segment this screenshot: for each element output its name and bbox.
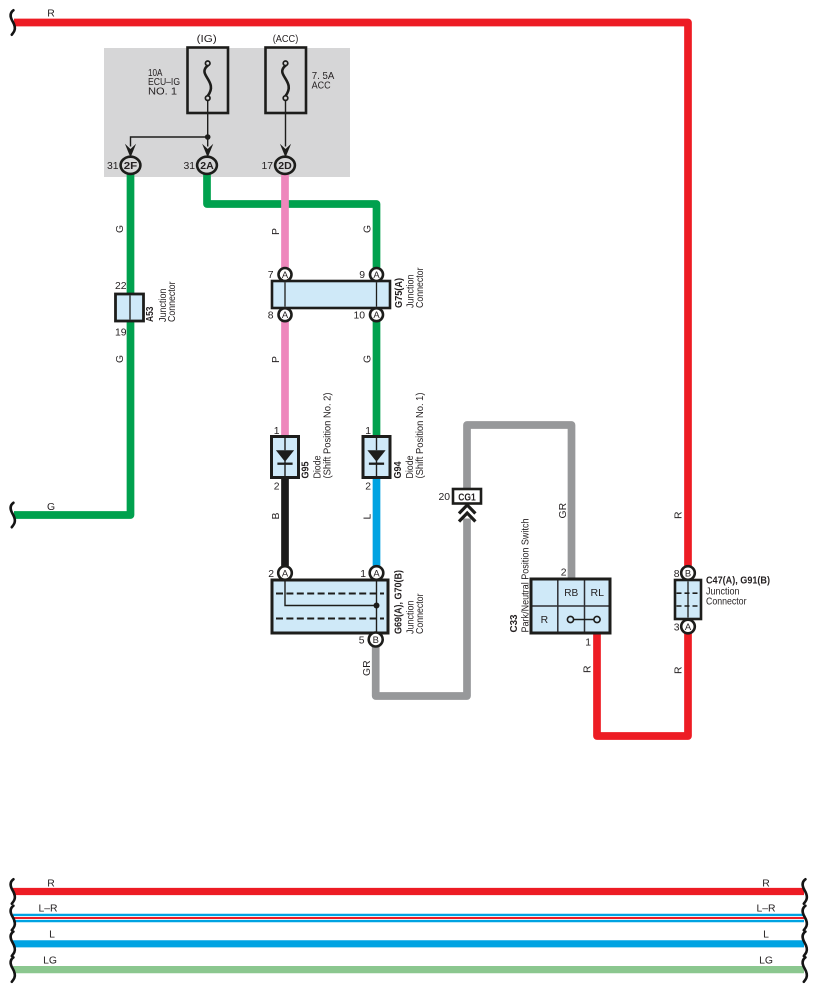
svg-text:31: 31	[107, 161, 119, 172]
svg-text:G95: G95	[301, 461, 312, 478]
svg-text:19: 19	[115, 328, 127, 339]
svg-text:1: 1	[585, 638, 591, 649]
svg-text:Connector: Connector	[706, 597, 747, 608]
svg-text:(ACC): (ACC)	[273, 34, 299, 45]
arrow into 2D	[280, 144, 291, 158]
break symbol left end of wire R	[11, 10, 15, 34]
svg-text:B: B	[373, 634, 379, 645]
bottom bus wire R	[13, 888, 804, 895]
svg-text:2: 2	[561, 568, 567, 579]
svg-text:L: L	[363, 514, 374, 520]
svg-text:R: R	[674, 666, 685, 674]
svg-text:2A: 2A	[200, 161, 214, 172]
diode G94	[363, 437, 390, 478]
svg-text:C47(A), G91(B): C47(A), G91(B)	[706, 576, 770, 587]
wire P (G75 pin 8 to diode G95)	[281, 321, 289, 437]
svg-text:7: 7	[268, 270, 274, 281]
junction connector C47(A), G91(B)	[675, 580, 701, 619]
svg-text:A53: A53	[145, 306, 156, 322]
svg-text:P: P	[271, 356, 282, 363]
svg-text:Connector: Connector	[167, 281, 178, 322]
switch contact	[574, 619, 594, 621]
svg-text:(Shift Position No. 2): (Shift Position No. 2)	[323, 393, 334, 479]
wire G (2F to A53 to left edge)	[14, 174, 131, 515]
pin 3 circle (A)	[681, 620, 695, 634]
pin 9 circle	[370, 268, 383, 281]
svg-text:1: 1	[365, 426, 371, 437]
fuse 10A ECU-IG NO.1 : top terminal circle	[205, 61, 210, 66]
svg-text:R: R	[541, 615, 549, 626]
junction dot	[205, 134, 211, 140]
switch C33 Park/Neutral Position Switch	[531, 579, 610, 633]
svg-text:A: A	[373, 309, 380, 320]
wire G (G75 pin 10 to diode G94)	[373, 321, 381, 437]
ground chevron arrows	[459, 505, 475, 514]
svg-text:GR: GR	[558, 502, 569, 518]
fuse 7.5A ACC : bottom terminal circle	[283, 96, 288, 101]
svg-text:C33: C33	[509, 614, 520, 632]
svg-text:22: 22	[115, 281, 127, 292]
svg-text:31: 31	[183, 161, 195, 172]
svg-text:G69(A), G70(B): G69(A), G70(B)	[394, 570, 405, 634]
wire R main (top feed, right side down to bottom elbow, to C33 pin 1)	[14, 23, 688, 737]
junction connector G75(A)	[272, 281, 390, 308]
svg-text:G: G	[115, 355, 126, 363]
svg-text:G75(A): G75(A)	[394, 278, 405, 308]
wire L (G94 pin 2 to G69 pin 1)	[373, 477, 381, 567]
bottom bus wire LG	[13, 966, 804, 973]
break symbol left end of wire G	[11, 503, 15, 527]
svg-text:3: 3	[674, 623, 680, 634]
svg-text:P: P	[271, 228, 282, 235]
svg-text:(Shift Position No. 1): (Shift Position No. 1)	[415, 393, 426, 479]
svg-text:1: 1	[360, 569, 366, 580]
svg-text:CG1: CG1	[458, 493, 476, 504]
svg-text:GR: GR	[362, 660, 373, 676]
svg-text:10: 10	[353, 311, 365, 322]
svg-text:Connector: Connector	[415, 267, 426, 308]
svg-text:Connector: Connector	[415, 593, 426, 634]
svg-text:A: A	[282, 567, 289, 578]
svg-text:A: A	[373, 269, 380, 280]
svg-text:NO. 1: NO. 1	[148, 86, 177, 97]
connector terminal 2A	[197, 157, 217, 174]
fuse 10A ECU-IG NO.1 : box	[188, 48, 229, 114]
svg-text:G94: G94	[393, 461, 404, 478]
svg-text:1: 1	[274, 426, 280, 437]
junction connector A53	[116, 294, 144, 321]
svg-text:LG: LG	[43, 956, 57, 967]
pin 5 circle (B)	[369, 633, 383, 647]
fuse 10A ECU-IG NO.1 : element S-curve	[204, 66, 211, 96]
svg-text:R: R	[674, 511, 685, 519]
dashed internal lines	[276, 593, 384, 595]
svg-text:R: R	[47, 879, 55, 890]
internal wire path pin1 to pin5	[376, 582, 378, 632]
wire G (2A to G75 pin 9)	[207, 174, 377, 269]
svg-text:2: 2	[274, 482, 280, 493]
svg-text:A: A	[282, 269, 289, 280]
svg-text:B: B	[685, 567, 691, 578]
wire B (G95 pin 2 to G69 pin 2)	[281, 477, 289, 567]
svg-text:G: G	[47, 502, 55, 513]
wire GR (G69 pin 5 to ground CG1)	[376, 519, 467, 697]
svg-text:G: G	[363, 355, 374, 363]
pin 7 circle	[279, 268, 292, 281]
diode G95	[272, 437, 299, 478]
svg-text:RB: RB	[564, 588, 578, 599]
svg-text:20: 20	[438, 492, 450, 503]
pin 1 circle (A)	[370, 566, 384, 580]
pin 10 circle	[370, 308, 383, 321]
svg-text:8: 8	[674, 569, 680, 580]
connector terminal 2D	[275, 157, 295, 174]
ground CG1 box	[453, 489, 481, 504]
svg-text:L–R: L–R	[756, 904, 776, 915]
svg-text:5: 5	[359, 636, 365, 647]
thin line from fuse ACC down	[285, 100, 287, 146]
fuse 7.5A ACC : top terminal circle	[283, 61, 288, 66]
svg-text:2: 2	[365, 482, 371, 493]
pin 8 circle (B)	[681, 566, 695, 580]
arrow into 2A	[202, 144, 213, 158]
connector terminal 2F	[121, 157, 141, 174]
svg-text:9: 9	[359, 270, 365, 281]
thin line from fuse IG down with branch	[207, 100, 209, 146]
svg-text:8: 8	[268, 311, 274, 322]
svg-text:A: A	[373, 567, 380, 578]
svg-text:G: G	[363, 225, 374, 233]
svg-text:LG: LG	[759, 956, 773, 967]
junction connector G69(A), G70(B)	[272, 580, 388, 633]
pin 8 circle	[279, 308, 292, 321]
wire GR (C33 pin 2 to ground CG1)	[467, 425, 572, 579]
bottom bus wire L	[13, 940, 804, 947]
svg-text:A: A	[685, 621, 692, 632]
fuse block (engine room J/B) gray box	[104, 48, 350, 177]
svg-text:L: L	[49, 930, 55, 941]
fuse 7.5A ACC : element S-curve	[282, 66, 289, 96]
svg-text:(IG): (IG)	[197, 34, 217, 45]
svg-text:A: A	[282, 309, 289, 320]
fuse 10A ECU-IG NO.1 : bottom terminal circle	[205, 96, 210, 101]
svg-text:G: G	[115, 225, 126, 233]
bottom bus wire L-R (striped)	[13, 914, 804, 916]
svg-text:RL: RL	[591, 588, 605, 599]
svg-text:B: B	[271, 513, 282, 520]
wire P (2D to G75 pin 7)	[281, 174, 289, 269]
svg-text:2D: 2D	[278, 161, 292, 172]
svg-text:L: L	[763, 930, 769, 941]
internal wire path pin2 to node	[285, 582, 377, 606]
svg-text:2F: 2F	[124, 161, 138, 172]
fuse 7.5A ACC : box	[266, 48, 307, 114]
internal junction dot	[374, 603, 380, 609]
svg-text:L–R: L–R	[38, 904, 58, 915]
svg-text:2: 2	[268, 569, 274, 580]
svg-text:Park/Neutral Position Switch: Park/Neutral Position Switch	[521, 518, 532, 632]
arrow into 2F	[125, 144, 136, 158]
svg-text:17: 17	[261, 161, 273, 172]
svg-text:ACC: ACC	[312, 80, 331, 91]
svg-text:R: R	[583, 665, 594, 673]
svg-text:R: R	[47, 9, 55, 20]
pin 2 circle (A)	[278, 566, 292, 580]
svg-text:R: R	[762, 879, 770, 890]
